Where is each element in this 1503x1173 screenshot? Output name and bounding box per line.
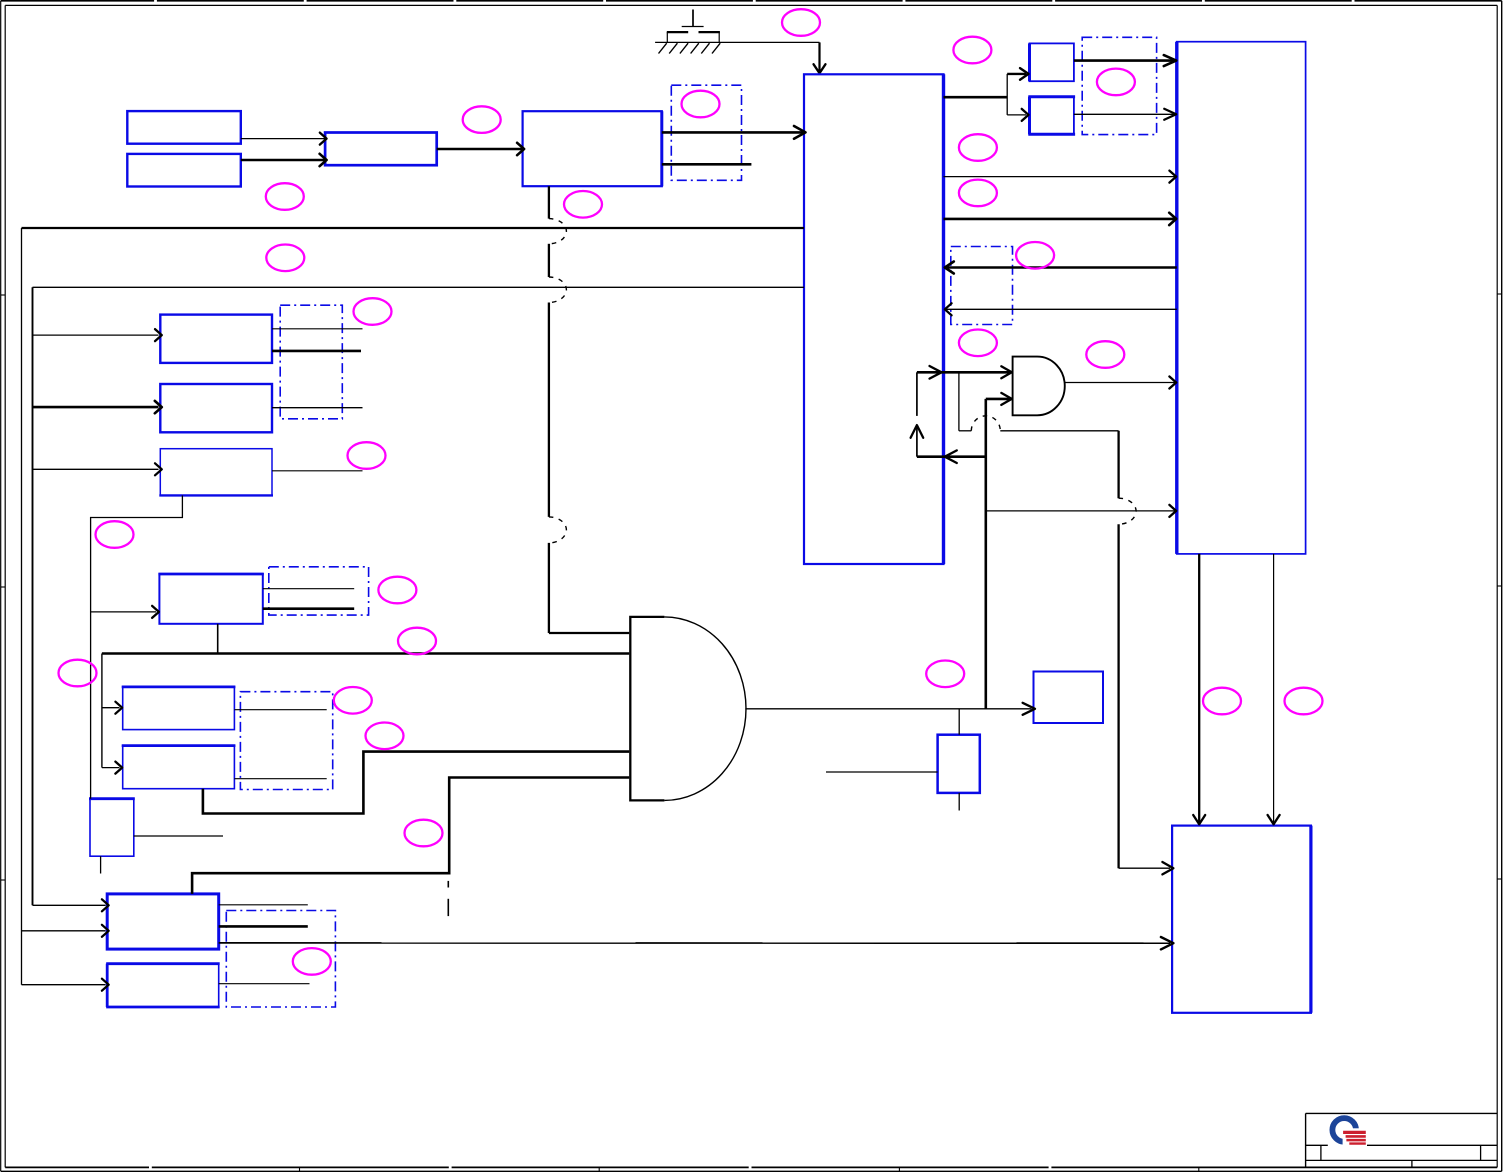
block R4	[158, 574, 263, 624]
wire U2 stub	[662, 163, 752, 166]
highlight ellipse	[959, 330, 997, 357]
wire G2 in2 net	[986, 393, 1176, 709]
wire net652 to G1 in2	[102, 654, 629, 774]
highlight ellipse	[378, 577, 416, 604]
highlight ellipse	[293, 948, 331, 975]
wire U3 to U4 U5	[944, 68, 1029, 121]
dashed box D1	[671, 85, 741, 180]
wire RB stub	[219, 983, 310, 985]
highlight ellipse	[405, 820, 443, 847]
block RB	[106, 964, 220, 1007]
wire RA stub2	[219, 925, 308, 928]
highlight ellipse	[1203, 688, 1241, 715]
block U1	[325, 133, 437, 166]
highlight ellipse	[682, 91, 720, 118]
wire ground to U3	[814, 42, 826, 73]
wire R3 to R4 and S1	[91, 495, 183, 798]
wire U6 to U3 b	[945, 303, 1177, 315]
wire G1 output	[745, 703, 1035, 735]
block R5	[122, 687, 236, 730]
dashed box D4	[269, 567, 369, 615]
wire U3 to U6 a	[944, 171, 1177, 183]
dashed box D2	[1082, 37, 1156, 134]
wire RA to U7	[219, 937, 1174, 949]
block U6	[1177, 42, 1306, 554]
wire U3 to G2 in1	[917, 366, 1012, 379]
wire U1 to U2	[437, 143, 524, 155]
highlight ellipse	[959, 134, 997, 161]
highlight ellipse	[463, 106, 501, 133]
wire R1 stub2	[272, 350, 361, 353]
highlight ellipse	[782, 9, 820, 36]
wire U6 to U7 a	[1193, 554, 1205, 824]
wire M2 input	[826, 771, 938, 773]
wire M2 stub down	[958, 793, 960, 811]
wire RA to G1 in4	[192, 778, 629, 894]
wire U3 to U6 b	[944, 213, 1177, 225]
highlight ellipse	[959, 180, 997, 207]
wire U5 to U6	[1074, 109, 1176, 120]
wire R2 stub	[272, 407, 363, 409]
block U5	[1028, 97, 1075, 135]
block M2	[938, 735, 980, 793]
block A1	[127, 111, 241, 144]
highlight ellipse	[354, 298, 392, 325]
highlight ellipse	[266, 183, 304, 210]
block RA	[107, 894, 219, 949]
wire bus2	[33, 286, 805, 288]
wire feedback up	[911, 372, 924, 456]
highlight ellipse	[96, 521, 134, 548]
block U7	[1172, 826, 1311, 1013]
wire A2 to U1	[241, 154, 327, 166]
block R6	[122, 746, 236, 789]
wire bus2 left drop	[33, 287, 162, 911]
wire G2 net down	[959, 372, 1174, 874]
wire hop	[971, 416, 1000, 431]
highlight ellipse	[1086, 341, 1124, 368]
wire U6 to U7 b	[1268, 554, 1280, 824]
highlight ellipse	[348, 442, 386, 469]
wire S1 stub down	[100, 856, 102, 873]
block R3	[159, 449, 273, 496]
highlight ellipse	[334, 687, 372, 714]
wire into U3	[917, 450, 986, 463]
wire U4 to U6	[1074, 55, 1176, 66]
and-gate G2	[1013, 357, 1065, 416]
block U4	[1030, 43, 1074, 81]
block U3	[804, 74, 944, 564]
highlight ellipse	[266, 244, 304, 271]
dashed box D3	[280, 305, 342, 419]
highlight ellipse	[1285, 688, 1323, 715]
wire R1 stub1	[272, 328, 363, 330]
ground	[655, 10, 819, 54]
block S1	[89, 799, 135, 857]
block R1	[160, 315, 272, 363]
wire U2 to U3	[662, 126, 806, 139]
block A2	[127, 154, 241, 187]
wire hop	[549, 277, 567, 303]
wire RA stub1	[219, 904, 308, 906]
highlight ellipse	[366, 723, 404, 750]
highlight ellipse	[953, 37, 991, 64]
wire bus1 left drop	[22, 228, 109, 991]
logo	[1328, 1115, 1367, 1147]
wire R4 stub1	[263, 588, 354, 590]
wire R4 stub2	[263, 607, 354, 610]
wire hop	[549, 219, 567, 244]
dashed segment	[447, 881, 449, 916]
highlight ellipse	[564, 191, 602, 218]
highlight ellipse	[926, 661, 964, 688]
wire G2 output	[1065, 377, 1177, 389]
and-gate G1	[630, 617, 746, 801]
wire R4 bottom	[217, 624, 219, 654]
highlight ellipse	[398, 628, 436, 655]
wire R6 to G1 in3	[203, 752, 629, 814]
highlight ellipse	[1016, 242, 1054, 269]
highlight ellipse	[59, 660, 97, 687]
block R2	[160, 384, 272, 432]
block U2	[523, 111, 662, 186]
wire R6 stub	[234, 778, 326, 780]
wire hop	[549, 517, 567, 543]
block M1	[1034, 672, 1104, 724]
dashed box D7	[951, 247, 1013, 325]
wire U2 to G1 in1	[549, 186, 629, 633]
highlight ellipse	[1097, 69, 1135, 96]
wire R5 stub	[234, 709, 326, 711]
wire S1 stub right	[134, 835, 223, 837]
wire R3 stub	[272, 470, 363, 472]
wire A1 to U1	[241, 133, 327, 145]
wire U6 to U3 a	[945, 262, 1177, 274]
dashed box D5	[240, 692, 332, 790]
wire hop	[1119, 498, 1137, 524]
title block	[1306, 1113, 1498, 1167]
wire bus1	[22, 227, 805, 229]
dashed box D6	[226, 911, 335, 1008]
